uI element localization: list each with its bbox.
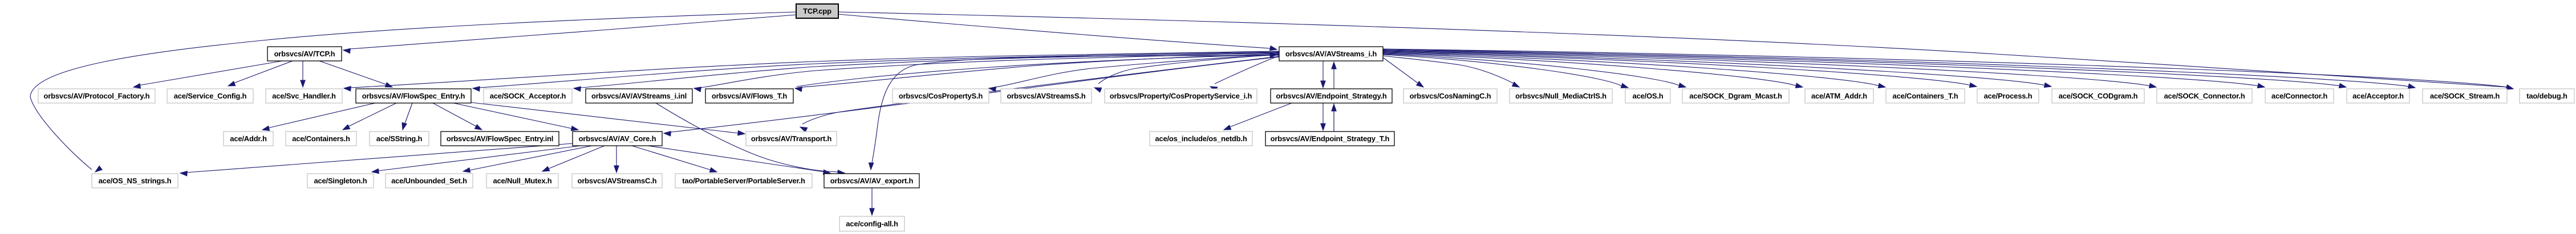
- wire orbsvcs/AV/AVStreams_i.h to orbsvcs/Property/CosPropertyService_i.h: [1210, 56, 1279, 92]
- svg-text:ace/Unbounded_Set.h: ace/Unbounded_Set.h: [391, 176, 467, 185]
- node ace/SOCK_Connector.h: [2157, 89, 2252, 103]
- svg-text:ace/Containers.h: ace/Containers.h: [292, 134, 350, 143]
- node ace/Singleton.h: [307, 174, 374, 188]
- svg-text:ace/Connector.h: ace/Connector.h: [2271, 92, 2327, 100]
- wire orbsvcs/AV/Flows_T.h to orbsvcs/AV/AVStreams_i.h: [797, 53, 1277, 87]
- wire orbsvcs/AV/AV_Core.h to tao/PortableServer/PortableServer.h: [632, 146, 717, 173]
- wire TCP.cpp to ace/OS_NS_strings.h: [30, 12, 796, 172]
- wire orbsvcs/AV/AV_Core.h to ace/Singleton.h: [372, 146, 581, 174]
- node orbsvcs/AV/AVStreams_i.h: [1279, 47, 1383, 61]
- node ace/SOCK_Stream.h: [2423, 89, 2507, 103]
- node orbsvcs/AVStreamsS.h: [1001, 89, 1092, 103]
- wire orbsvcs/AV/TCP.h to ace/Service_Config.h: [228, 61, 293, 86]
- svg-text:tao/debug.h: tao/debug.h: [2526, 92, 2567, 100]
- node ace/os_include/os_netdb.h: [1150, 132, 1252, 146]
- wire TCP.cpp to tao/debug.h: [838, 12, 2513, 89]
- wire orbsvcs/AV/AVStreams_i.h to ace/Connector.h: [1383, 51, 2265, 88]
- node orbsvcs/CosPropertyS.h: [893, 89, 989, 103]
- node ace/Service_Config.h: [167, 89, 253, 103]
- node ace/Null_Mutex.h: [486, 174, 558, 188]
- wire orbsvcs/AV/Endpoint_Strategy.h to orbsvcs/AV/Endpoint_Strategy_T.h: [1321, 103, 1325, 130]
- wire orbsvcs/AV/AVStreams_i.inl to orbsvcs/AV/AV_export.h: [656, 103, 845, 175]
- wire orbsvcs/AV/FlowSpec_Entry.h to orbsvcs/AV/AV_Core.h: [453, 103, 578, 131]
- wire orbsvcs/AV/Endpoint_Strategy_T.h to orbsvcs/AV/AVStreams_i.h: [1332, 62, 1336, 132]
- wire orbsvcs/AV/AVStreams_i.h to orbsvcs/Null_MediaCtrlS.h: [1383, 56, 1519, 87]
- svg-text:orbsvcs/AV/TCP.h: orbsvcs/AV/TCP.h: [274, 50, 335, 58]
- svg-text:ace/OS_NS_strings.h: ace/OS_NS_strings.h: [99, 176, 172, 185]
- node orbsvcs/AV/FlowSpec_Entry.inl: [441, 132, 559, 146]
- wire orbsvcs/AV/AVStreams_i.h to ace/SOCK_CODgram.h: [1383, 52, 2051, 88]
- svg-text:orbsvcs/AV/Transport.h: orbsvcs/AV/Transport.h: [751, 134, 832, 143]
- wire orbsvcs/AV/Endpoint_Strategy_T.h to orbsvcs/AV/Endpoint_Strategy.h: [1332, 104, 1336, 132]
- svg-text:orbsvcs/AV/Flows_T.h: orbsvcs/AV/Flows_T.h: [712, 92, 788, 100]
- node orbsvcs/AV/Endpoint_Strategy.h: [1271, 89, 1392, 103]
- svg-text:ace/Acceptor.h: ace/Acceptor.h: [2352, 92, 2404, 100]
- node orbsvcs/AV/TCP.h: [267, 47, 342, 61]
- node orbsvcs/AV/AV_export.h: [824, 174, 919, 188]
- svg-text:orbsvcs/Property/CosPropertySe: orbsvcs/Property/CosPropertyService_i.h: [1110, 92, 1252, 100]
- node ace/OS.h: [1625, 89, 1670, 103]
- wire orbsvcs/AV/Endpoint_Strategy.h to ace/os_include/os_netdb.h: [1224, 103, 1292, 130]
- node ace/Unbounded_Set.h: [386, 174, 473, 188]
- node ace/Addr.h: [224, 132, 273, 146]
- wire orbsvcs/AV/AVStreams_i.h to ace/SOCK_Stream.h: [1383, 50, 2415, 88]
- wire orbsvcs/AV/AVStreams_i.h to orbsvcs/AV/Endpoint_Strategy.h: [1321, 61, 1325, 88]
- wire orbsvcs/AV/AVStreams_i.h to ace/Svc_Handler.h: [344, 51, 1279, 91]
- node ace/OS_NS_strings.h: [92, 174, 178, 188]
- node orbsvcs/AV/FlowSpec_Entry.h: [356, 89, 471, 103]
- node ace/Connector.h: [2265, 89, 2334, 103]
- node TCP.cpp: [796, 4, 838, 18]
- wire orbsvcs/AV/AVStreams_i.h to ace/SOCK_Connector.h: [1383, 51, 2156, 88]
- svg-text:orbsvcs/AV/FlowSpec_Entry.h: orbsvcs/AV/FlowSpec_Entry.h: [362, 92, 465, 100]
- svg-text:ace/SOCK_Connector.h: ace/SOCK_Connector.h: [2164, 92, 2245, 100]
- node orbsvcs/Property/CosPropertyService_i.h: [1105, 89, 1257, 103]
- wire orbsvcs/AV/AVStreams_i.h to ace/SOCK_Acceptor.h: [574, 52, 1279, 91]
- wire orbsvcs/AV/TCP.h to orbsvcs/AV/FlowSpec_Entry.h: [319, 61, 392, 87]
- node ace/SString.h: [370, 132, 429, 146]
- node ace/Acceptor.h: [2347, 89, 2409, 103]
- svg-text:ace/Containers_T.h: ace/Containers_T.h: [1893, 92, 1958, 100]
- node ace/Process.h: [1977, 89, 2039, 103]
- wire orbsvcs/AV/AV_Core.h to ace/Unbounded_Set.h: [463, 146, 592, 173]
- node orbsvcs/AV/Protocol_Factory.h: [38, 89, 155, 103]
- svg-text:orbsvcs/AVStreamsC.h: orbsvcs/AVStreamsC.h: [578, 176, 657, 185]
- wire orbsvcs/AV/FlowSpec_Entry.h to ace/Addr.h: [262, 103, 375, 130]
- svg-text:ace/Null_Mutex.h: ace/Null_Mutex.h: [493, 176, 552, 185]
- svg-text:ace/SOCK_CODgram.h: ace/SOCK_CODgram.h: [2059, 92, 2138, 100]
- svg-text:ace/OS.h: ace/OS.h: [1632, 92, 1663, 100]
- node ace/ATM_Addr.h: [1805, 89, 1873, 103]
- wire orbsvcs/AV/AVStreams_i.h to orbsvcs/CosNamingC.h: [1383, 58, 1423, 87]
- wire orbsvcs/AV/AVStreams_i.h to orbsvcs/AV/AVStreams_i.inl: [694, 53, 1279, 92]
- svg-text:ace/ATM_Addr.h: ace/ATM_Addr.h: [1811, 92, 1867, 100]
- node orbsvcs/AVStreamsC.h: [572, 174, 662, 188]
- wire orbsvcs/AV/AVStreams_i.h to orbsvcs/AV/AV_Core.h: [664, 57, 1279, 136]
- node orbsvcs/Null_MediaCtrlS.h: [1510, 89, 1612, 103]
- svg-text:ace/SOCK_Acceptor.h: ace/SOCK_Acceptor.h: [490, 92, 566, 100]
- wire orbsvcs/AV/AVStreams_i.h to tao/debug.h: [1383, 49, 2513, 89]
- node orbsvcs/AV/Endpoint_Strategy_T.h: [1265, 132, 1394, 146]
- wire orbsvcs/AV/AVStreams_i.h to orbsvcs/AV/AV_export.h: [869, 55, 1279, 170]
- wire orbsvcs/AV/AV_Core.h to orbsvcs/AVStreamsC.h: [614, 146, 619, 173]
- node orbsvcs/AV/Flows_T.h: [705, 89, 793, 103]
- svg-text:ace/config-all.h: ace/config-all.h: [846, 220, 898, 228]
- wire orbsvcs/AV/AVStreams_i.h to ace/SOCK_Dgram_Mcast.h: [1383, 54, 1686, 88]
- wire orbsvcs/AV/TCP.h to ace/Svc_Handler.h: [301, 61, 305, 87]
- wire orbsvcs/AV/FlowSpec_Entry.h to orbsvcs/AV/FlowSpec_Entry.inl: [433, 103, 482, 130]
- svg-text:orbsvcs/CosNamingC.h: orbsvcs/CosNamingC.h: [1410, 92, 1491, 100]
- svg-text:ace/SOCK_Stream.h: ace/SOCK_Stream.h: [2430, 92, 2500, 100]
- node ace/Containers_T.h: [1886, 89, 1965, 103]
- wire orbsvcs/AV/TCP.h to orbsvcs/AV/Protocol_Factory.h: [133, 61, 282, 88]
- svg-text:orbsvcs/AV/Protocol_Factory.h: orbsvcs/AV/Protocol_Factory.h: [44, 92, 150, 100]
- node orbsvcs/CosNamingC.h: [1403, 89, 1497, 103]
- node ace/SOCK_Dgram_Mcast.h: [1682, 89, 1789, 103]
- wire TCP.cpp to orbsvcs/AV/TCP.h: [343, 15, 796, 54]
- wire orbsvcs/AV/AVStreams_i.h to orbsvcs/AV/FlowSpec_Entry.h: [473, 52, 1279, 91]
- svg-text:orbsvcs/AV/Endpoint_Strategy.h: orbsvcs/AV/Endpoint_Strategy.h: [1276, 92, 1387, 100]
- wire orbsvcs/AV/AVStreams_i.h to orbsvcs/AVStreamsS.h: [1094, 55, 1279, 92]
- node tao/debug.h: [2520, 89, 2574, 103]
- wire orbsvcs/AV/AVStreams_i.h to ace/Process.h: [1383, 52, 1977, 88]
- wire TCP.cpp to orbsvcs/AV/AVStreams_i.h: [838, 14, 1277, 51]
- svg-text:orbsvcs/CosPropertyS.h: orbsvcs/CosPropertyS.h: [899, 92, 983, 100]
- wire orbsvcs/AV/AV_Core.h to ace/OS_NS_strings.h: [180, 143, 573, 176]
- wire orbsvcs/AV/AVStreams_i.h to ace/Containers_T.h: [1383, 53, 1885, 88]
- node orbsvcs/AV/AVStreams_i.inl: [586, 89, 692, 103]
- svg-text:ace/Process.h: ace/Process.h: [1984, 92, 2033, 100]
- wire orbsvcs/AV/FlowSpec_Entry.h to orbsvcs/AV/Transport.h: [471, 102, 745, 136]
- svg-text:orbsvcs/AV/AVStreams_i.inl: orbsvcs/AV/AVStreams_i.inl: [591, 92, 687, 100]
- svg-text:orbsvcs/AV/AV_Core.h: orbsvcs/AV/AV_Core.h: [579, 134, 656, 143]
- svg-text:orbsvcs/AV/Endpoint_Strategy_T: orbsvcs/AV/Endpoint_Strategy_T.h: [1271, 134, 1390, 143]
- node orbsvcs/AV/Transport.h: [746, 132, 837, 146]
- wire orbsvcs/AV/AVStreams_i.h to ace/Acceptor.h: [1383, 50, 2346, 88]
- node ace/Svc_Handler.h: [266, 89, 342, 103]
- svg-text:ace/SString.h: ace/SString.h: [376, 134, 423, 143]
- svg-text:ace/Svc_Handler.h: ace/Svc_Handler.h: [272, 92, 336, 100]
- node tao/PortableServer/PortableServer.h: [675, 174, 812, 188]
- svg-text:tao/PortableServer/PortableSer: tao/PortableServer/PortableServer.h: [682, 176, 805, 185]
- wire orbsvcs/AV/AV_Core.h to orbsvcs/AV/AV_export.h: [648, 146, 830, 175]
- svg-text:ace/Addr.h: ace/Addr.h: [230, 134, 267, 143]
- wire orbsvcs/AV/AVStreams_i.h to orbsvcs/AV/Flows_T.h: [795, 54, 1279, 92]
- svg-text:orbsvcs/AV/AV_export.h: orbsvcs/AV/AV_export.h: [830, 176, 914, 185]
- node ace/Containers.h: [286, 132, 356, 146]
- wire orbsvcs/AV/AVStreams_i.h to ace/OS.h: [1383, 55, 1628, 88]
- svg-text:orbsvcs/AV/FlowSpec_Entry.inl: orbsvcs/AV/FlowSpec_Entry.inl: [447, 134, 553, 143]
- wire orbsvcs/AV/AVStreams_i.h to ace/ATM_Addr.h: [1383, 54, 1803, 88]
- node ace/config-all.h: [839, 216, 904, 231]
- svg-text:orbsvcs/Null_MediaCtrlS.h: orbsvcs/Null_MediaCtrlS.h: [1515, 92, 1607, 100]
- wire orbsvcs/AV/AV_Core.h to ace/Null_Mutex.h: [542, 146, 605, 171]
- wire orbsvcs/AV/FlowSpec_Entry.h to ace/Containers.h: [343, 103, 396, 130]
- node ace/SOCK_Acceptor.h: [484, 89, 572, 103]
- wire orbsvcs/AV/AVStreams_i.h to orbsvcs/CosPropertyS.h: [989, 54, 1279, 92]
- node ace/SOCK_CODgram.h: [2052, 89, 2144, 103]
- node orbsvcs/AV/AV_Core.h: [573, 132, 662, 146]
- svg-text:orbsvcs/AV/AVStreams_i.h: orbsvcs/AV/AVStreams_i.h: [1285, 50, 1377, 58]
- wire orbsvcs/AV/FlowSpec_Entry.h to ace/SString.h: [402, 103, 412, 130]
- svg-text:ace/os_include/os_netdb.h: ace/os_include/os_netdb.h: [1155, 134, 1247, 143]
- wire orbsvcs/AV/AVStreams_i.h to orbsvcs/AV/Transport.h: [800, 56, 1279, 132]
- svg-text:TCP.cpp: TCP.cpp: [803, 7, 831, 15]
- svg-text:ace/SOCK_Dgram_Mcast.h: ace/SOCK_Dgram_Mcast.h: [1689, 92, 1782, 100]
- svg-text:orbsvcs/AVStreamsS.h: orbsvcs/AVStreamsS.h: [1007, 92, 1085, 100]
- svg-text:ace/Singleton.h: ace/Singleton.h: [314, 176, 367, 185]
- svg-text:ace/Service_Config.h: ace/Service_Config.h: [174, 92, 247, 100]
- wire orbsvcs/AV/AV_export.h to ace/config-all.h: [870, 188, 874, 215]
